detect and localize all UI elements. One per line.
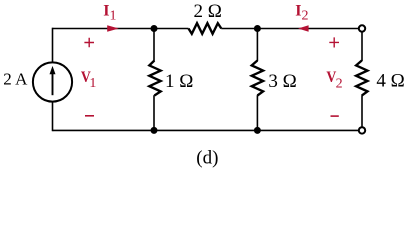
resistor R 2ohm xyxy=(189,23,222,34)
terminal top xyxy=(359,25,365,31)
junction dot top-right xyxy=(254,25,261,32)
svg-text:2: 2 xyxy=(336,76,343,91)
svg-text:2 Ω: 2 Ω xyxy=(194,1,222,22)
svg-text:1: 1 xyxy=(109,8,116,23)
minus sign V2 xyxy=(331,115,339,117)
wire right lower xyxy=(361,95,363,127)
resistor R 4ohm xyxy=(356,61,367,96)
current source 2A circle xyxy=(33,62,72,101)
plus sign V2 xyxy=(329,37,339,47)
svg-text:2: 2 xyxy=(301,8,308,23)
wire top xyxy=(53,28,359,30)
svg-text:(d): (d) xyxy=(196,147,218,168)
wire stub 1ohm top xyxy=(153,29,155,62)
minus sign V1 xyxy=(85,115,94,117)
wire stub 3ohm bottom xyxy=(256,95,258,130)
svg-text:1 Ω: 1 Ω xyxy=(165,71,193,92)
wire stub 1ohm bottom xyxy=(153,95,155,130)
plus sign V1 xyxy=(84,38,94,48)
current I2 arrowhead xyxy=(298,25,309,32)
junction dot top-left xyxy=(151,25,158,32)
svg-text:1: 1 xyxy=(89,76,96,91)
junction dot bottom-left xyxy=(151,127,158,134)
wire stub 3ohm top xyxy=(256,29,258,62)
wire right upper xyxy=(361,32,363,61)
current I1 arrowhead xyxy=(107,25,119,32)
terminal bottom xyxy=(359,127,365,133)
wire bottom xyxy=(53,129,359,131)
junction dot bottom-right xyxy=(254,127,261,134)
wire left xyxy=(52,28,54,132)
current source arrow xyxy=(52,74,54,95)
resistor R 1ohm xyxy=(149,61,160,96)
svg-text:4 Ω: 4 Ω xyxy=(376,71,404,92)
svg-text:2 A: 2 A xyxy=(3,69,28,88)
resistor R 3ohm xyxy=(252,61,263,96)
svg-text:3 Ω: 3 Ω xyxy=(268,71,296,92)
